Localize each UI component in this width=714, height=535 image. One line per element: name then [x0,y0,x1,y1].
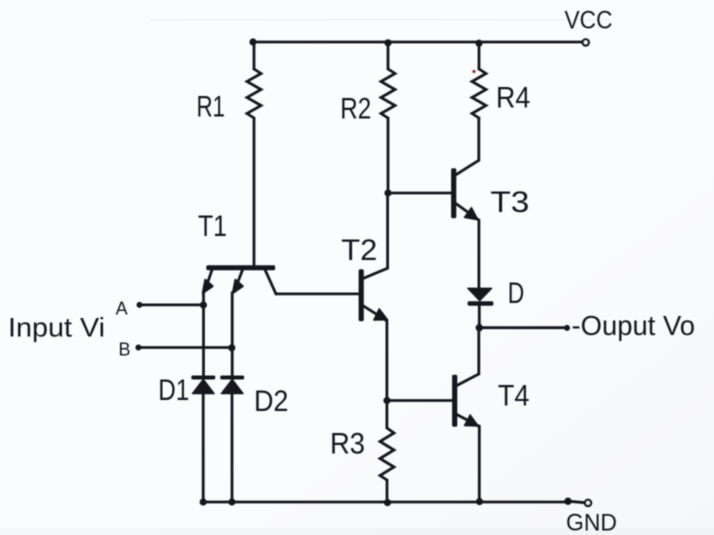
wire GND rail [203,501,568,504]
transistor T2 collector lead [364,268,388,278]
wire R2 top stub [387,43,390,69]
junction dot input A node [201,302,207,308]
junction dot GND-R3 [385,500,391,506]
svg-text:D1: D1 [158,374,189,407]
resistor R3 [380,428,394,480]
svg-text:D: D [508,277,525,310]
wire T2 emitter to node B2 [385,321,388,401]
transistor T2 base bar [359,270,363,321]
wire R3 to GND rail [386,480,389,502]
transistor T4 base bar [453,375,457,426]
diode D2 triangle [221,379,243,393]
wire R4 to T3 collector [477,118,480,160]
junction dot GND-D2 [229,499,235,505]
wire diode D2 to GND rail [231,394,234,503]
wire T4 base from node B2 [387,399,453,402]
transistor T1 emitter 1 arrow [203,280,213,294]
terminal circle VCC [583,39,589,45]
wire R1 to T1 base [253,118,256,266]
transistor T3 emitter arrow [464,208,478,220]
svg-text:VCC: VCC [565,7,613,35]
svg-text:-Ouput Vo: -Ouput Vo [572,310,696,341]
transistor T3 collector lead [456,160,479,175]
wire R2 to node C1 [387,118,390,193]
transistor T3 emitter lead [456,204,478,220]
resistor R4 [472,69,486,118]
wire R1 top stub [253,42,256,69]
junction dot output node [476,325,482,331]
diode D1 cathode bar [192,376,215,379]
transistor T3 base bar [452,169,456,218]
wire T1 emitter 1 to diode D1 [202,293,205,378]
wire output node to terminal [479,326,567,329]
diode D2 cathode bar [221,376,244,379]
junction dot node B2 [384,398,390,404]
terminal dot input B [136,345,141,350]
faint page artifact band bottom [0,528,714,535]
wire diode D1 to GND rail [202,394,205,503]
wire T1 collector to T2 base [276,292,359,295]
transistor T1 base bar [207,266,275,270]
wire T4 collector to output node [477,328,480,374]
svg-text:R1: R1 [196,90,225,123]
wire input A [140,303,204,306]
svg-text:R3: R3 [330,428,365,461]
wire T3 emitter to diode D [477,220,480,288]
wire node B2 to R3 [385,401,388,429]
faint page artifact line top [150,19,610,21]
svg-text:D2: D2 [254,385,289,418]
transistor T1 emitter 2 lead [237,270,242,284]
resistor R2 [381,69,395,118]
svg-text:A: A [116,299,128,319]
transistor T2 emitter arrow [374,309,388,320]
terminal dot input A [137,303,142,308]
diode D triangle [468,288,492,300]
resistor R1 [247,69,261,118]
svg-text:T3: T3 [490,186,529,219]
transistor T2 emitter lead [364,306,387,320]
terminal circle GND [585,500,591,506]
svg-text:GND: GND [566,510,617,535]
svg-text:T4: T4 [498,380,530,413]
svg-text:T2: T2 [341,234,377,267]
wire T1 emitter 2 to diode D2 [231,293,234,378]
junction dot GND rail end [565,498,571,504]
diode D cathode bar [468,302,492,305]
svg-text:R4: R4 [496,82,530,115]
junction dot node C1 [385,190,391,196]
red speck artifact near R4 [472,70,475,73]
junction dot VCC-R4 [476,40,482,46]
junction dot GND-T4 [477,499,483,505]
wire diode D to output node [478,305,481,327]
terminal dot output [565,326,570,331]
svg-text:R2: R2 [340,93,371,126]
wire VCC rail [253,41,583,44]
wire input B [138,346,231,349]
transistor T1 emitter 2 arrow [233,280,243,294]
wire T4 emitter to GND rail [478,426,481,502]
junction dot GND-D1 [200,499,206,505]
wire R4 top stub [478,43,481,69]
transistor T4 emitter arrow [465,415,479,426]
wire node C1 to T2 collector [386,193,389,268]
diode D1 triangle [193,379,215,393]
transistor T4 emitter lead [457,415,479,427]
wire GND terminal stub [568,501,585,503]
junction dot VCC-R2 [385,40,391,46]
transistor T1 emitter 1 lead [207,270,212,284]
junction dot input B node [229,345,235,351]
svg-text:Input Vi: Input Vi [8,312,105,342]
transistor T1 collector lead [265,270,276,294]
transistor T4 collector lead [457,374,479,386]
wire T3 base from node C1 [388,192,452,195]
svg-text:T1: T1 [198,210,227,243]
junction dot VCC-R1 [250,39,256,45]
svg-text:B: B [118,340,130,360]
